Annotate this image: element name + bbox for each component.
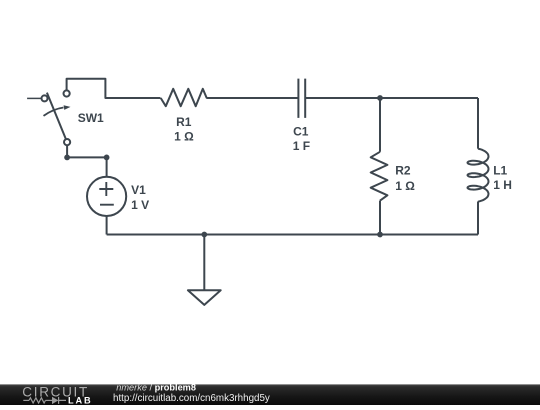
svg-text:V1: V1	[131, 183, 146, 197]
switch SW1 bottom throw terminal circle	[64, 139, 70, 145]
svg-text:L1: L1	[493, 163, 507, 177]
footer bar background	[0, 384, 540, 405]
switch SW1 pole stub wire	[27, 97, 41, 99]
logo diode cathode bar and wire	[59, 397, 66, 404]
inductor L1 coil	[468, 149, 489, 202]
svg-text:R1: R1	[176, 115, 192, 129]
junction dot ground	[201, 232, 207, 238]
switch SW1 blade	[47, 93, 66, 140]
voltage source V1 circle	[87, 177, 126, 216]
svg-text:1 V: 1 V	[131, 198, 149, 212]
junction dot switch bottom	[64, 155, 70, 161]
svg-text:http://circuitlab.com/cn6mk3rh: http://circuitlab.com/cn6mk3rhhgd5y	[113, 393, 270, 404]
logo mini resistor zigzag	[29, 398, 46, 403]
resistor R1	[161, 89, 207, 106]
V1 plus sign	[99, 182, 113, 196]
svg-text:C1: C1	[293, 125, 309, 139]
ground symbol triangle	[188, 290, 221, 305]
V1 minus sign	[100, 204, 114, 206]
node A junction dot (after C1)	[377, 95, 383, 101]
svg-text:LAB: LAB	[68, 396, 93, 405]
logo diode triangle	[52, 397, 58, 404]
wire L1 top (right side down)	[477, 98, 479, 149]
svg-text:1 H: 1 H	[493, 178, 512, 192]
junction dot V1 top	[104, 155, 110, 161]
logo wire to diode	[46, 399, 53, 401]
resistor R2	[371, 152, 388, 201]
svg-text:1 Ω: 1 Ω	[395, 179, 415, 193]
wire bottom rail	[107, 234, 478, 236]
svg-text:SW1: SW1	[78, 111, 104, 125]
wire R1 to C1	[206, 97, 298, 99]
wire L1 bottom	[477, 202, 479, 235]
switch SW1 actuation arc	[44, 108, 64, 116]
svg-text:nmerke / problem8: nmerke / problem8	[116, 383, 196, 393]
switch SW1 arrow head	[64, 105, 71, 110]
wire C1 to node A and top-right corner	[305, 97, 478, 99]
capacitor C1 plates	[298, 79, 305, 118]
wire V1 bottom	[106, 216, 108, 235]
wire R2 bottom	[379, 201, 381, 235]
switch SW1 top throw terminal circle	[64, 90, 70, 96]
wire ground stem	[203, 235, 205, 291]
junction dot R2 bottom	[377, 232, 383, 238]
svg-text:R2: R2	[395, 163, 411, 177]
wire V1 top to switch junctions	[67, 145, 107, 177]
wire R2 top	[379, 98, 381, 152]
logo resistor-diode squiggle wire	[23, 397, 66, 404]
svg-text:1 F: 1 F	[293, 139, 310, 153]
svg-text:1 Ω: 1 Ω	[174, 129, 194, 143]
switch SW1 pole terminal circle	[42, 95, 48, 101]
wire switch throw to R1 (top-left jog)	[67, 79, 161, 98]
